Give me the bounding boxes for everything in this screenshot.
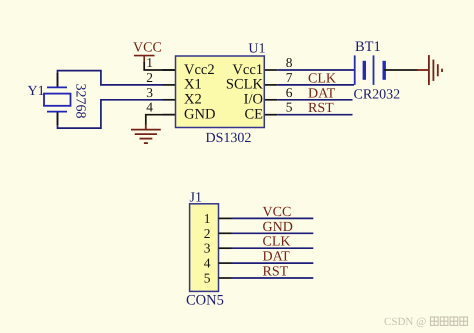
pin 7 stub <box>264 84 277 86</box>
ground symbol right of BT1 <box>417 55 443 85</box>
pin 3 stub <box>163 99 176 101</box>
wire DAT from U1 pin 6 <box>277 99 352 101</box>
svg-text:Vcc2: Vcc2 <box>184 62 215 78</box>
svg-text:1: 1 <box>204 211 211 226</box>
svg-text:5: 5 <box>204 271 211 286</box>
svg-text:5: 5 <box>286 100 293 115</box>
wire J1-2 GND <box>232 232 314 234</box>
svg-text:DAT: DAT <box>308 86 336 101</box>
svg-text:BT1: BT1 <box>355 39 381 55</box>
svg-text:CSDN @: CSDN @ <box>384 316 426 328</box>
connector J1 CON5 <box>190 204 219 292</box>
svg-text:CE: CE <box>244 107 263 123</box>
svg-text:GND: GND <box>184 107 215 123</box>
svg-text:DAT: DAT <box>263 250 291 265</box>
svg-text:6: 6 <box>286 85 293 100</box>
svg-text:4: 4 <box>146 100 153 115</box>
svg-text:J1: J1 <box>190 191 202 206</box>
battery BT1 <box>355 55 385 85</box>
J1 pin 2 stub <box>219 232 232 234</box>
wire J1-3 CLK <box>232 247 314 249</box>
svg-text:Y1: Y1 <box>28 84 45 99</box>
svg-text:CLK: CLK <box>308 71 336 86</box>
pin 4 stub <box>163 114 176 116</box>
svg-text:SCLK: SCLK <box>226 77 264 93</box>
pin 2 stub <box>163 84 176 86</box>
wire J1-1 VCC <box>232 217 314 219</box>
svg-text:1: 1 <box>146 55 153 70</box>
svg-text:I/O: I/O <box>244 92 263 108</box>
ground symbol below U1 <box>131 124 161 143</box>
svg-text:8: 8 <box>286 55 293 70</box>
wire crystal top to X1 (pin 2) <box>58 71 164 87</box>
IC U1 DS1302 <box>176 56 265 128</box>
pin 1 stub <box>163 69 176 71</box>
svg-text:RST: RST <box>263 265 289 280</box>
wire VCC to U1 pin 1 <box>144 62 176 70</box>
svg-text:2: 2 <box>204 226 211 241</box>
svg-text:U1: U1 <box>248 41 265 56</box>
svg-text:GND: GND <box>263 220 293 235</box>
svg-text:Vcc1: Vcc1 <box>232 62 263 78</box>
svg-text:2: 2 <box>146 70 153 85</box>
crystal Y1 <box>44 73 71 125</box>
svg-text:X2: X2 <box>184 92 202 108</box>
svg-text:3: 3 <box>146 85 153 100</box>
svg-text:3: 3 <box>204 241 211 256</box>
svg-text:CR2032: CR2032 <box>354 87 401 102</box>
pin 5 stub <box>264 114 277 116</box>
wire CLK from U1 pin 7 <box>277 84 354 86</box>
svg-text:VCC: VCC <box>263 205 292 220</box>
svg-text:4: 4 <box>204 256 211 271</box>
wire RST from U1 pin 5 <box>277 114 352 116</box>
svg-text:VCC: VCC <box>133 40 162 55</box>
wire BT1 to right ground <box>384 69 417 71</box>
J1 pin 3 stub <box>219 247 232 249</box>
svg-text:CLK: CLK <box>263 235 291 250</box>
svg-text:DS1302: DS1302 <box>206 131 252 146</box>
wire U1 pin 8 to BT1 <box>277 69 354 71</box>
wire J1-5 RST <box>232 277 314 279</box>
watermark CSDN @ user <box>384 316 468 328</box>
svg-text:32768: 32768 <box>73 84 88 119</box>
wire crystal bottom to X2 (pin 3) <box>58 100 164 128</box>
power symbol VCC <box>134 56 155 63</box>
J1 pin 5 stub <box>219 277 232 279</box>
J1 pin 1 stub <box>219 217 232 219</box>
wire J1-4 DAT <box>232 262 314 264</box>
svg-text:CON5: CON5 <box>186 293 224 309</box>
pin 6 stub <box>264 99 277 101</box>
svg-text:RST: RST <box>308 101 334 116</box>
pin 8 stub <box>264 69 277 71</box>
J1 pin 4 stub <box>219 262 232 264</box>
svg-text:X1: X1 <box>184 77 202 93</box>
wire U1 pin 4 to ground <box>146 115 176 125</box>
svg-text:7: 7 <box>286 70 293 85</box>
